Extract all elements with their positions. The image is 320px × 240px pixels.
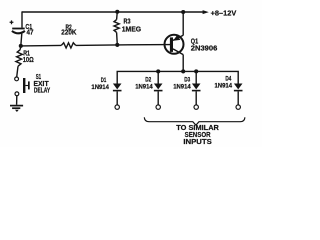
- diode D2 1N914: [135, 71, 162, 109]
- brace to similar sensor inputs: [144, 117, 245, 146]
- svg-text:2N3906: 2N3906: [191, 46, 218, 53]
- svg-text:DELAY: DELAY: [34, 87, 51, 94]
- wire capacitor to junction: [21, 34, 22, 46]
- transistor Q1 2N3906: [165, 35, 218, 55]
- svg-text:47: 47: [27, 29, 34, 36]
- svg-text:1N914: 1N914: [173, 84, 191, 91]
- wire bottom bus with D1 and D4 corner leads: [117, 71, 238, 84]
- node dot D2 on bus: [156, 69, 160, 73]
- wire top rail: [22, 11, 203, 13]
- svg-text:1N914: 1N914: [135, 84, 153, 91]
- svg-text:SENSOR: SENSOR: [185, 132, 211, 139]
- svg-text:INPUTS: INPUTS: [183, 139, 212, 146]
- svg-text:S1: S1: [36, 74, 41, 81]
- node dot R3 top on rail: [115, 10, 119, 14]
- diode D1 1N914: [91, 77, 121, 109]
- svg-text:D2: D2: [145, 76, 151, 83]
- diode D3 1N914: [173, 71, 200, 109]
- svg-text:1MEG: 1MEG: [122, 25, 142, 34]
- wire from top rail down to capacitor C1: [21, 11, 23, 27]
- wire switch to ground: [16, 96, 18, 105]
- node junction dot (C1 / R1 / rail): [19, 44, 23, 48]
- wire middle rail: [21, 45, 171, 46]
- capacitor C1: [10, 20, 34, 36]
- svg-text:1N914: 1N914: [91, 84, 109, 91]
- node dot emitter junction on top rail: [181, 10, 185, 14]
- svg-text:D4: D4: [225, 75, 231, 82]
- diode D4 1N914: [215, 75, 243, 109]
- svg-text:+8–12V: +8–12V: [211, 9, 238, 18]
- wire emitter to top rail: [182, 12, 184, 35]
- svg-text:10Ω: 10Ω: [23, 57, 34, 64]
- svg-text:220K: 220K: [61, 30, 76, 37]
- node dot collector junction on bus: [181, 69, 185, 73]
- resistor R3: [114, 12, 141, 45]
- ground: [10, 106, 23, 112]
- switch S1 pushbutton: [15, 74, 51, 96]
- svg-text:D3: D3: [184, 76, 190, 83]
- wire collector to bottom bus: [182, 55, 184, 72]
- node dot R3 bottom on rail: [115, 43, 119, 47]
- svg-text:1N914: 1N914: [215, 83, 233, 90]
- svg-text:TO SIMILAR: TO SIMILAR: [176, 125, 219, 132]
- resistor R1: [16, 46, 34, 77]
- resistor R2: [61, 24, 76, 48]
- node dot D3 on bus: [194, 69, 198, 73]
- power arrow +8-12V: [203, 9, 238, 18]
